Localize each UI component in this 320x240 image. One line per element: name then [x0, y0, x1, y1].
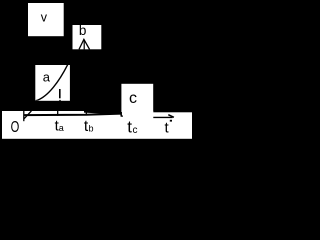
t-axis line [24, 114, 121, 116]
svg-text:O: O [11, 118, 20, 135]
svg-text:v: v [41, 11, 48, 25]
t-axis arrowhead lower barb [170, 120, 172, 122]
svg-text:c: c [129, 90, 137, 107]
strip top shave right [153, 111, 192, 112]
box b [73, 25, 102, 49]
box c [121, 84, 153, 115]
curve fragment at origin [24, 111, 31, 119]
box v [28, 3, 64, 36]
svg-text:a: a [43, 69, 51, 84]
svg-text:a: a [59, 123, 64, 133]
v-axis bottom segment [23, 111, 25, 121]
svg-text:c: c [133, 125, 138, 136]
t-axis arrowhead [168, 115, 174, 118]
tick t_a [57, 111, 59, 116]
dash dot in box a [59, 100, 60, 101]
axis/band merge patch [84, 110, 122, 115]
svg-text:b: b [88, 124, 93, 134]
tick t_b [85, 111, 87, 115]
svg-text:t: t [127, 117, 132, 136]
spike triangle [79, 39, 90, 49]
curve in box a [36, 64, 69, 101]
svg-text:b: b [79, 23, 87, 38]
box a [35, 65, 70, 101]
axis strip (white band) [2, 111, 192, 139]
t-axis arrow segment [153, 116, 172, 118]
dashed tick in box a [59, 89, 61, 98]
tick t_c [121, 112, 123, 116]
spike center line [83, 41, 85, 49]
